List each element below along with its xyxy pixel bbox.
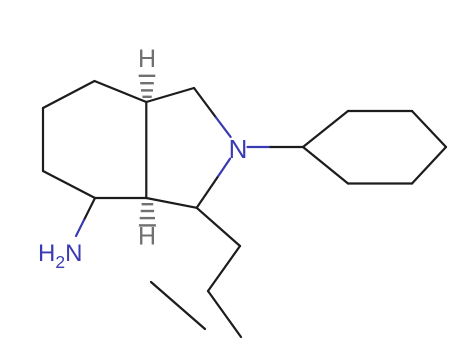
wire right hexagon edge TR-R	[412, 111, 446, 147]
wire right hexagon edge BR-BL	[348, 182, 412, 184]
wire pyrrolidine N-C3 lower half black	[197, 177, 218, 207]
svg-text:H: H	[138, 223, 156, 251]
wire lone segment lower left	[151, 282, 205, 329]
svg-text:H: H	[138, 45, 156, 73]
wire cyclohexane edge C4-C5	[43, 81, 95, 108]
wire pyrrolidine C3-C7a	[146, 198, 196, 208]
wire right hexagon edge TL-TR	[348, 110, 412, 112]
wire N-ipso left half blue	[248, 146, 271, 148]
wire cyclohexane edge C7-C7a	[95, 197, 146, 199]
wire pyrrolidine N-C3 upper half blue	[217, 159, 230, 178]
wire cyclohexane edge C3a-C4	[95, 81, 147, 102]
wire right hexagon edge ipso-TL	[303, 111, 348, 147]
wire substituent C3-V1	[197, 208, 240, 246]
wire substituent V2-V3	[208, 291, 241, 337]
wire amine bond lower half blue	[76, 220, 84, 236]
wire amine bond C7-NH2 upper half black	[84, 198, 95, 220]
stereo hash wedge top (C3a to H)	[139, 75, 156, 98]
wire pyrrolidine C1-N upper half black	[194, 88, 216, 118]
wire pyrrolidine C3a-C1	[146, 88, 194, 102]
wire substituent V1-V2	[208, 246, 240, 291]
wire cyclohexane edge C5-C6	[42, 108, 44, 171]
wire fusion bond C3a-C7a	[145, 102, 147, 198]
wire N-ipso right half black	[271, 146, 304, 148]
stereo hash wedge bottom (C7a to H)	[139, 203, 156, 227]
wire right hexagon edge BL-ipso	[303, 147, 348, 184]
wire cyclohexane edge C6-C7	[43, 171, 95, 198]
wire pyrrolidine C1-N lower half blue	[216, 118, 231, 137]
svg-text:N: N	[229, 134, 248, 164]
wire right hexagon edge R-BR	[412, 147, 446, 184]
